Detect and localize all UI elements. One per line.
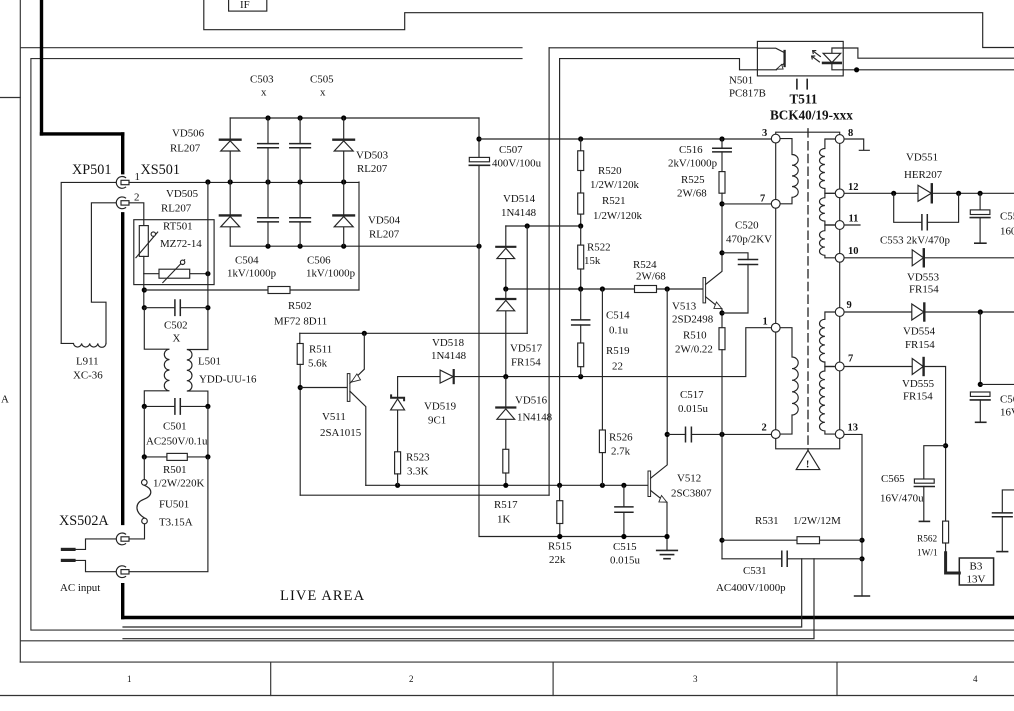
capacitor C503 <box>258 118 279 182</box>
svg-text:3: 3 <box>693 674 698 684</box>
pin 7 right <box>835 354 853 371</box>
svg-text:RT501: RT501 <box>163 221 193 233</box>
svg-text:1kV/1000p: 1kV/1000p <box>227 268 277 280</box>
wire: V511 left rail down <box>299 388 301 496</box>
transformer left pin column <box>775 139 777 435</box>
svg-text:10: 10 <box>848 246 859 257</box>
diode VD506 <box>220 118 241 182</box>
pin 11 <box>835 214 858 230</box>
svg-text:22k: 22k <box>549 554 566 566</box>
svg-text:16V/470u: 16V/470u <box>880 493 924 505</box>
svg-text:RL207: RL207 <box>357 163 388 175</box>
svg-text:R511: R511 <box>309 344 332 356</box>
svg-text:1N4148: 1N4148 <box>431 350 467 362</box>
transistor V511 (PNP 2SA1015) <box>347 333 366 485</box>
svg-text:C56: C56 <box>1000 394 1014 406</box>
wire: pin2 node column down <box>721 434 723 558</box>
wire: bridge bottom bus <box>230 245 479 247</box>
wire: frame-top wire to optocoupler collector <box>549 47 757 49</box>
capacitor C504 <box>258 182 279 246</box>
primary winding pins 1-2 <box>780 328 798 434</box>
termination bar below R531 node <box>855 595 870 597</box>
diode VD505 <box>220 182 241 246</box>
svg-text:VD503: VD503 <box>356 150 389 162</box>
diode VD518 <box>440 370 454 383</box>
svg-text:MF72 8D11: MF72 8D11 <box>274 316 327 328</box>
wire: bridge top bus <box>230 117 479 119</box>
capacitor C553 <box>894 193 959 230</box>
resistor R523 <box>395 452 401 486</box>
svg-text:C516: C516 <box>679 144 703 156</box>
svg-text:C515: C515 <box>613 541 637 553</box>
svg-text:VD504: VD504 <box>368 215 401 227</box>
svg-text:C514: C514 <box>606 310 630 322</box>
svg-text:R515: R515 <box>548 541 572 553</box>
transistor V512 (NPN 2SC3807) <box>648 289 670 550</box>
svg-text:1kV/1000p: 1kV/1000p <box>306 268 356 280</box>
svg-text:XS501: XS501 <box>141 162 180 178</box>
pin 8 ground stub <box>844 139 869 150</box>
svg-text:BCK40/19-xxx: BCK40/19-xxx <box>770 108 853 123</box>
wire: V511 base <box>300 387 347 389</box>
diode VD517 <box>496 289 515 377</box>
wire: RT501 to horizontal thermistor <box>144 256 208 273</box>
pin 2 <box>762 423 781 439</box>
optocoupler output wires right <box>843 48 1014 58</box>
svg-text:R519: R519 <box>606 345 630 357</box>
svg-text:x: x <box>320 87 326 99</box>
svg-text:0.015u: 0.015u <box>610 555 641 567</box>
svg-text:1/2W/120k: 1/2W/120k <box>593 210 643 222</box>
row label line A <box>0 97 20 99</box>
thermistor (RT501 lower element) <box>159 260 190 283</box>
svg-text:C55: C55 <box>1000 211 1014 223</box>
connector XS501 pin 1 <box>116 177 129 189</box>
svg-text:2SD2498: 2SD2498 <box>672 314 714 326</box>
svg-text:XP501: XP501 <box>72 162 111 178</box>
svg-text:C505: C505 <box>310 74 334 86</box>
L911 degaussing coil <box>61 343 106 347</box>
wire: blade2 to XS502A-2 <box>74 560 116 571</box>
ruler bottom <box>0 662 1014 695</box>
svg-text:13V: 13V <box>967 574 986 586</box>
connector B3 <box>959 558 993 586</box>
diode VD555 <box>912 358 923 375</box>
svg-text:13: 13 <box>848 423 859 434</box>
resistor R531 <box>722 537 862 544</box>
svg-text:R502: R502 <box>288 300 312 312</box>
wire: long feedback line (optocoupler emitter) down to R515 node <box>559 59 561 486</box>
svg-text:PC817B: PC817B <box>729 88 766 100</box>
transformer bottom bracket pins 2-13 <box>776 434 840 449</box>
svg-text:11: 11 <box>849 214 859 225</box>
svg-text:7: 7 <box>760 194 765 205</box>
svg-text:C506: C506 <box>307 255 331 267</box>
svg-text:15k: 15k <box>584 255 601 267</box>
svg-text:C507: C507 <box>499 144 523 156</box>
resistor R520 <box>578 139 584 171</box>
resistor R519 <box>578 343 584 377</box>
svg-text:2kV/1000p: 2kV/1000p <box>668 158 718 170</box>
wire: bridge right vertical to R502 <box>358 182 360 290</box>
svg-text:MZ72-14: MZ72-14 <box>160 238 202 250</box>
svg-text:1: 1 <box>763 317 768 328</box>
resistor R525 <box>719 172 725 207</box>
svg-text:R525: R525 <box>681 174 705 186</box>
wire: B+ bus to transformer pin 3 <box>479 138 771 140</box>
svg-text:12: 12 <box>848 182 859 193</box>
svg-text:FR154: FR154 <box>511 357 541 369</box>
capacitor C565 <box>914 446 945 522</box>
svg-text:VD505: VD505 <box>166 188 199 200</box>
IF block box (top, partial) <box>229 0 267 11</box>
zener VD519 <box>391 377 405 452</box>
fuse FU501 <box>129 457 151 539</box>
svg-text:9: 9 <box>847 300 852 311</box>
svg-text:2SA1015: 2SA1015 <box>320 427 362 439</box>
svg-text:C501: C501 <box>163 421 187 433</box>
svg-text:22: 22 <box>612 361 623 373</box>
resistor R562 <box>943 521 949 553</box>
diode VD503 <box>333 118 354 182</box>
wire: V511 supply return (y495) <box>300 494 549 496</box>
wire: pin 12 output <box>844 192 1014 194</box>
diode VD554 <box>912 304 925 321</box>
svg-text:R517: R517 <box>494 499 518 511</box>
wire: long feedback line (optocoupler collector) down left side <box>548 48 550 495</box>
svg-text:C531: C531 <box>743 565 767 577</box>
wire: R511/V511 supply wire <box>300 332 527 334</box>
svg-text:1/2W/120k: 1/2W/120k <box>590 179 640 191</box>
svg-text:RL207: RL207 <box>369 229 400 241</box>
capacitor C514 <box>572 289 590 343</box>
AC plug blade 2 <box>62 559 74 562</box>
svg-text:VD506: VD506 <box>172 128 205 140</box>
svg-text:C520: C520 <box>735 220 759 232</box>
svg-text:V512: V512 <box>677 473 701 485</box>
connector XS502A pin 2 <box>116 566 129 578</box>
choke L501 right winding <box>187 350 208 407</box>
wire: XS501-1 output bus <box>129 181 359 183</box>
capacitor C515 <box>615 485 633 539</box>
svg-text:VD551: VD551 <box>906 152 938 164</box>
svg-text:C553 2kV/470p: C553 2kV/470p <box>880 235 950 247</box>
svg-text:R501: R501 <box>163 464 187 476</box>
capacitor C505 <box>290 118 311 182</box>
svg-text:RL207: RL207 <box>170 143 201 155</box>
svg-text:FR154: FR154 <box>909 284 939 296</box>
diode VD553 <box>912 249 924 266</box>
svg-text:5.6k: 5.6k <box>308 358 328 370</box>
svg-text:!: ! <box>806 460 809 471</box>
wire: blade1 to XS502A-1 <box>74 539 116 550</box>
resistor R524 <box>635 286 657 293</box>
main right rail XS501-1 down <box>207 182 209 350</box>
resistor R502 <box>144 287 359 294</box>
svg-text:B3: B3 <box>970 561 983 573</box>
wire: left rail below RT501 <box>143 274 145 308</box>
svg-text:3.3K: 3.3K <box>407 466 429 478</box>
wire: hot ground rail down from C507 <box>479 246 667 536</box>
transformer T511 core dashed line <box>807 129 809 450</box>
svg-text:L501: L501 <box>198 356 221 368</box>
optocoupler N501 <box>757 41 843 76</box>
svg-text:4: 4 <box>973 674 978 684</box>
wire: pin 10 output <box>844 257 1014 259</box>
svg-text:N501: N501 <box>729 75 753 87</box>
thermistor RT501 <box>136 226 158 258</box>
svg-text:C565: C565 <box>881 473 905 485</box>
wire: XS502A-2 to R501 rail <box>129 457 208 572</box>
capacitor C502 <box>142 300 208 315</box>
svg-text:VD519: VD519 <box>424 401 456 413</box>
svg-text:2: 2 <box>762 423 767 434</box>
connector XS502A pin 1 <box>116 533 129 545</box>
pin 11 stub <box>844 224 860 226</box>
warning triangle <box>796 450 820 470</box>
secondary winding pins 7-13 <box>820 367 836 435</box>
capacitor C506 <box>290 182 311 246</box>
secondary winding pins 9-7 <box>820 312 836 367</box>
svg-text:AC250V/0.1u: AC250V/0.1u <box>146 436 208 448</box>
secondary winding pins 11-10 <box>820 225 836 258</box>
secondary winding pins 8-12 <box>820 139 836 193</box>
wire: R525 to transformer pin 7 <box>722 203 771 205</box>
pin 3 <box>762 128 780 143</box>
svg-text:R531: R531 <box>755 515 779 527</box>
svg-text:R526: R526 <box>609 432 633 444</box>
secondary winding pins 12-11 <box>820 193 836 225</box>
svg-text:1W/1: 1W/1 <box>917 549 938 559</box>
wire: V512 base bus (y485) <box>366 484 648 486</box>
wire: XS501-2 to L911 right lead <box>91 203 115 344</box>
svg-text:7: 7 <box>848 354 853 365</box>
svg-text:VD554: VD554 <box>903 326 936 338</box>
svg-text:1N4148: 1N4148 <box>501 207 537 219</box>
svg-text:L911: L911 <box>76 356 99 368</box>
svg-text:C504: C504 <box>235 255 259 267</box>
diode VD516 <box>496 377 515 450</box>
svg-text:VD514: VD514 <box>503 193 536 205</box>
svg-text:LIVE AREA: LIVE AREA <box>280 588 365 604</box>
transformer right pin column <box>839 139 841 434</box>
svg-text:8: 8 <box>848 128 853 139</box>
wire: pin 9 output <box>844 311 1014 313</box>
svg-text:2SC3807: 2SC3807 <box>671 488 712 500</box>
svg-text:0.015u: 0.015u <box>678 403 709 415</box>
svg-text:C502: C502 <box>164 320 188 332</box>
svg-text:2: 2 <box>134 192 139 204</box>
capacitor C516 <box>713 139 731 172</box>
wire: XS501-1 to L911 left lead <box>61 182 115 343</box>
capacitor C531 <box>722 551 862 566</box>
svg-text:VD517: VD517 <box>510 343 543 355</box>
svg-text:2W/68: 2W/68 <box>677 188 707 200</box>
diode VD514 <box>496 226 515 289</box>
capacitor C507 (electrolytic) <box>469 118 489 246</box>
svg-text:V513: V513 <box>672 301 697 313</box>
svg-text:XC-36: XC-36 <box>73 370 103 382</box>
svg-text:VD518: VD518 <box>432 337 465 349</box>
svg-text:1N4148: 1N4148 <box>517 412 553 424</box>
transformer T511 pin stubs <box>797 79 807 88</box>
svg-text:R523: R523 <box>406 452 430 464</box>
svg-text:AC400V/1000p: AC400V/1000p <box>716 582 786 594</box>
primary winding pins 3-7 <box>780 139 798 204</box>
svg-text:3: 3 <box>762 128 767 139</box>
svg-text:R524: R524 <box>633 259 657 271</box>
RT501 enclosure box <box>134 220 214 285</box>
svg-text:X: X <box>173 333 181 345</box>
svg-text:XS502A: XS502A <box>59 513 109 529</box>
svg-text:RL207: RL207 <box>161 203 192 215</box>
earth ground under V512 <box>657 550 678 558</box>
svg-text:1/2W/12M: 1/2W/12M <box>793 515 841 527</box>
svg-text:16V: 16V <box>1000 407 1014 419</box>
svg-text:1: 1 <box>127 674 132 684</box>
svg-text:2.7k: 2.7k <box>611 446 631 458</box>
wire: regulation node bus to pin 1 <box>398 328 772 377</box>
svg-text:2W/0.22: 2W/0.22 <box>675 344 713 356</box>
svg-text:R521: R521 <box>602 195 626 207</box>
right edge capacitor (cut) <box>993 490 1014 552</box>
svg-text:2: 2 <box>409 674 414 684</box>
capacitor C501 <box>142 399 211 414</box>
resistor R515 <box>557 485 563 539</box>
junction dot <box>854 67 859 72</box>
AC plug blade 1 <box>62 548 74 551</box>
svg-text:T3.15A: T3.15A <box>159 517 193 529</box>
capacitor C520 <box>722 253 758 313</box>
wire: V513 base drive bus <box>506 288 703 290</box>
svg-text:R520: R520 <box>598 165 622 177</box>
svg-text:R510: R510 <box>683 330 707 342</box>
pin 7 left <box>760 194 780 209</box>
pin 1 <box>763 317 781 333</box>
svg-text:YDD-UU-16: YDD-UU-16 <box>199 374 257 386</box>
resistor R526 <box>599 289 605 485</box>
svg-text:0.1u: 0.1u <box>609 325 629 337</box>
diode VD551 <box>918 184 932 202</box>
svg-text:T511: T511 <box>790 92 818 107</box>
svg-text:FR154: FR154 <box>905 339 935 351</box>
resistor R517 <box>503 449 509 485</box>
svg-text:FU501: FU501 <box>159 499 189 511</box>
transistor V513 (NPN 2SD2498) <box>703 204 725 328</box>
resistor R501 <box>142 406 211 460</box>
resistor R511 <box>297 333 303 387</box>
wire: VD514 branch down to R511 supply <box>526 226 528 333</box>
connector XS501 pin 2 <box>116 197 129 209</box>
diode VD504 <box>333 182 354 246</box>
svg-text:AC input: AC input <box>60 582 100 594</box>
svg-text:C517: C517 <box>680 389 704 401</box>
wire: VD555 output down to R562 <box>924 367 946 522</box>
thick wire to B3 <box>946 553 960 573</box>
capacitor C517 <box>667 427 771 442</box>
svg-text:9C1: 9C1 <box>428 415 446 427</box>
transformer top bar connecting pins 3 and 8 <box>776 132 840 139</box>
svg-text:FR154: FR154 <box>903 391 933 403</box>
choke L501 left winding <box>144 308 169 407</box>
pin 12 <box>835 182 858 198</box>
svg-text:x: x <box>261 87 267 99</box>
svg-text:400V/100u: 400V/100u <box>492 158 542 170</box>
resistor R522 <box>578 226 584 289</box>
resistor R521 <box>578 171 584 227</box>
pin 9 <box>835 300 851 316</box>
svg-text:HER207: HER207 <box>904 169 943 181</box>
capacitor C564 (16V filter, edge) <box>970 312 1014 422</box>
wire: R521/R522 node to VD514 <box>506 225 581 227</box>
pin 8 <box>835 128 853 143</box>
svg-text:160V: 160V <box>1000 226 1014 238</box>
svg-text:VD553: VD553 <box>907 272 940 284</box>
svg-text:1: 1 <box>135 171 140 183</box>
resistor R510 <box>719 328 725 435</box>
wire: pin 13 down to R531 <box>844 434 862 596</box>
svg-text:R522: R522 <box>587 242 611 254</box>
pin 13 <box>835 423 858 439</box>
wire: C531 lines to off-page left <box>123 559 802 627</box>
frame inner border <box>31 59 1014 631</box>
svg-text:C503: C503 <box>250 74 274 86</box>
svg-text:R562: R562 <box>917 535 937 545</box>
svg-text:A: A <box>1 394 9 406</box>
svg-text:VD555: VD555 <box>902 378 935 390</box>
capacitor C552 (160V filter, edge) <box>970 193 990 243</box>
svg-text:1K: 1K <box>497 514 510 526</box>
upper block outline (adjacent page boxes) <box>204 0 1014 48</box>
svg-text:1/2W/220K: 1/2W/220K <box>153 478 205 490</box>
svg-text:V511: V511 <box>322 411 346 423</box>
svg-text:470p/2KV: 470p/2KV <box>726 234 772 246</box>
svg-text:2W/68: 2W/68 <box>636 271 666 283</box>
pin 10 <box>835 246 858 262</box>
wire: frame-inner wire to optocoupler emitter <box>560 59 758 70</box>
svg-text:IF: IF <box>240 0 250 11</box>
wire: XS501-2 to RT501 <box>129 203 144 226</box>
svg-text:VD516: VD516 <box>515 395 548 407</box>
wire: pin 7 output <box>844 366 912 368</box>
